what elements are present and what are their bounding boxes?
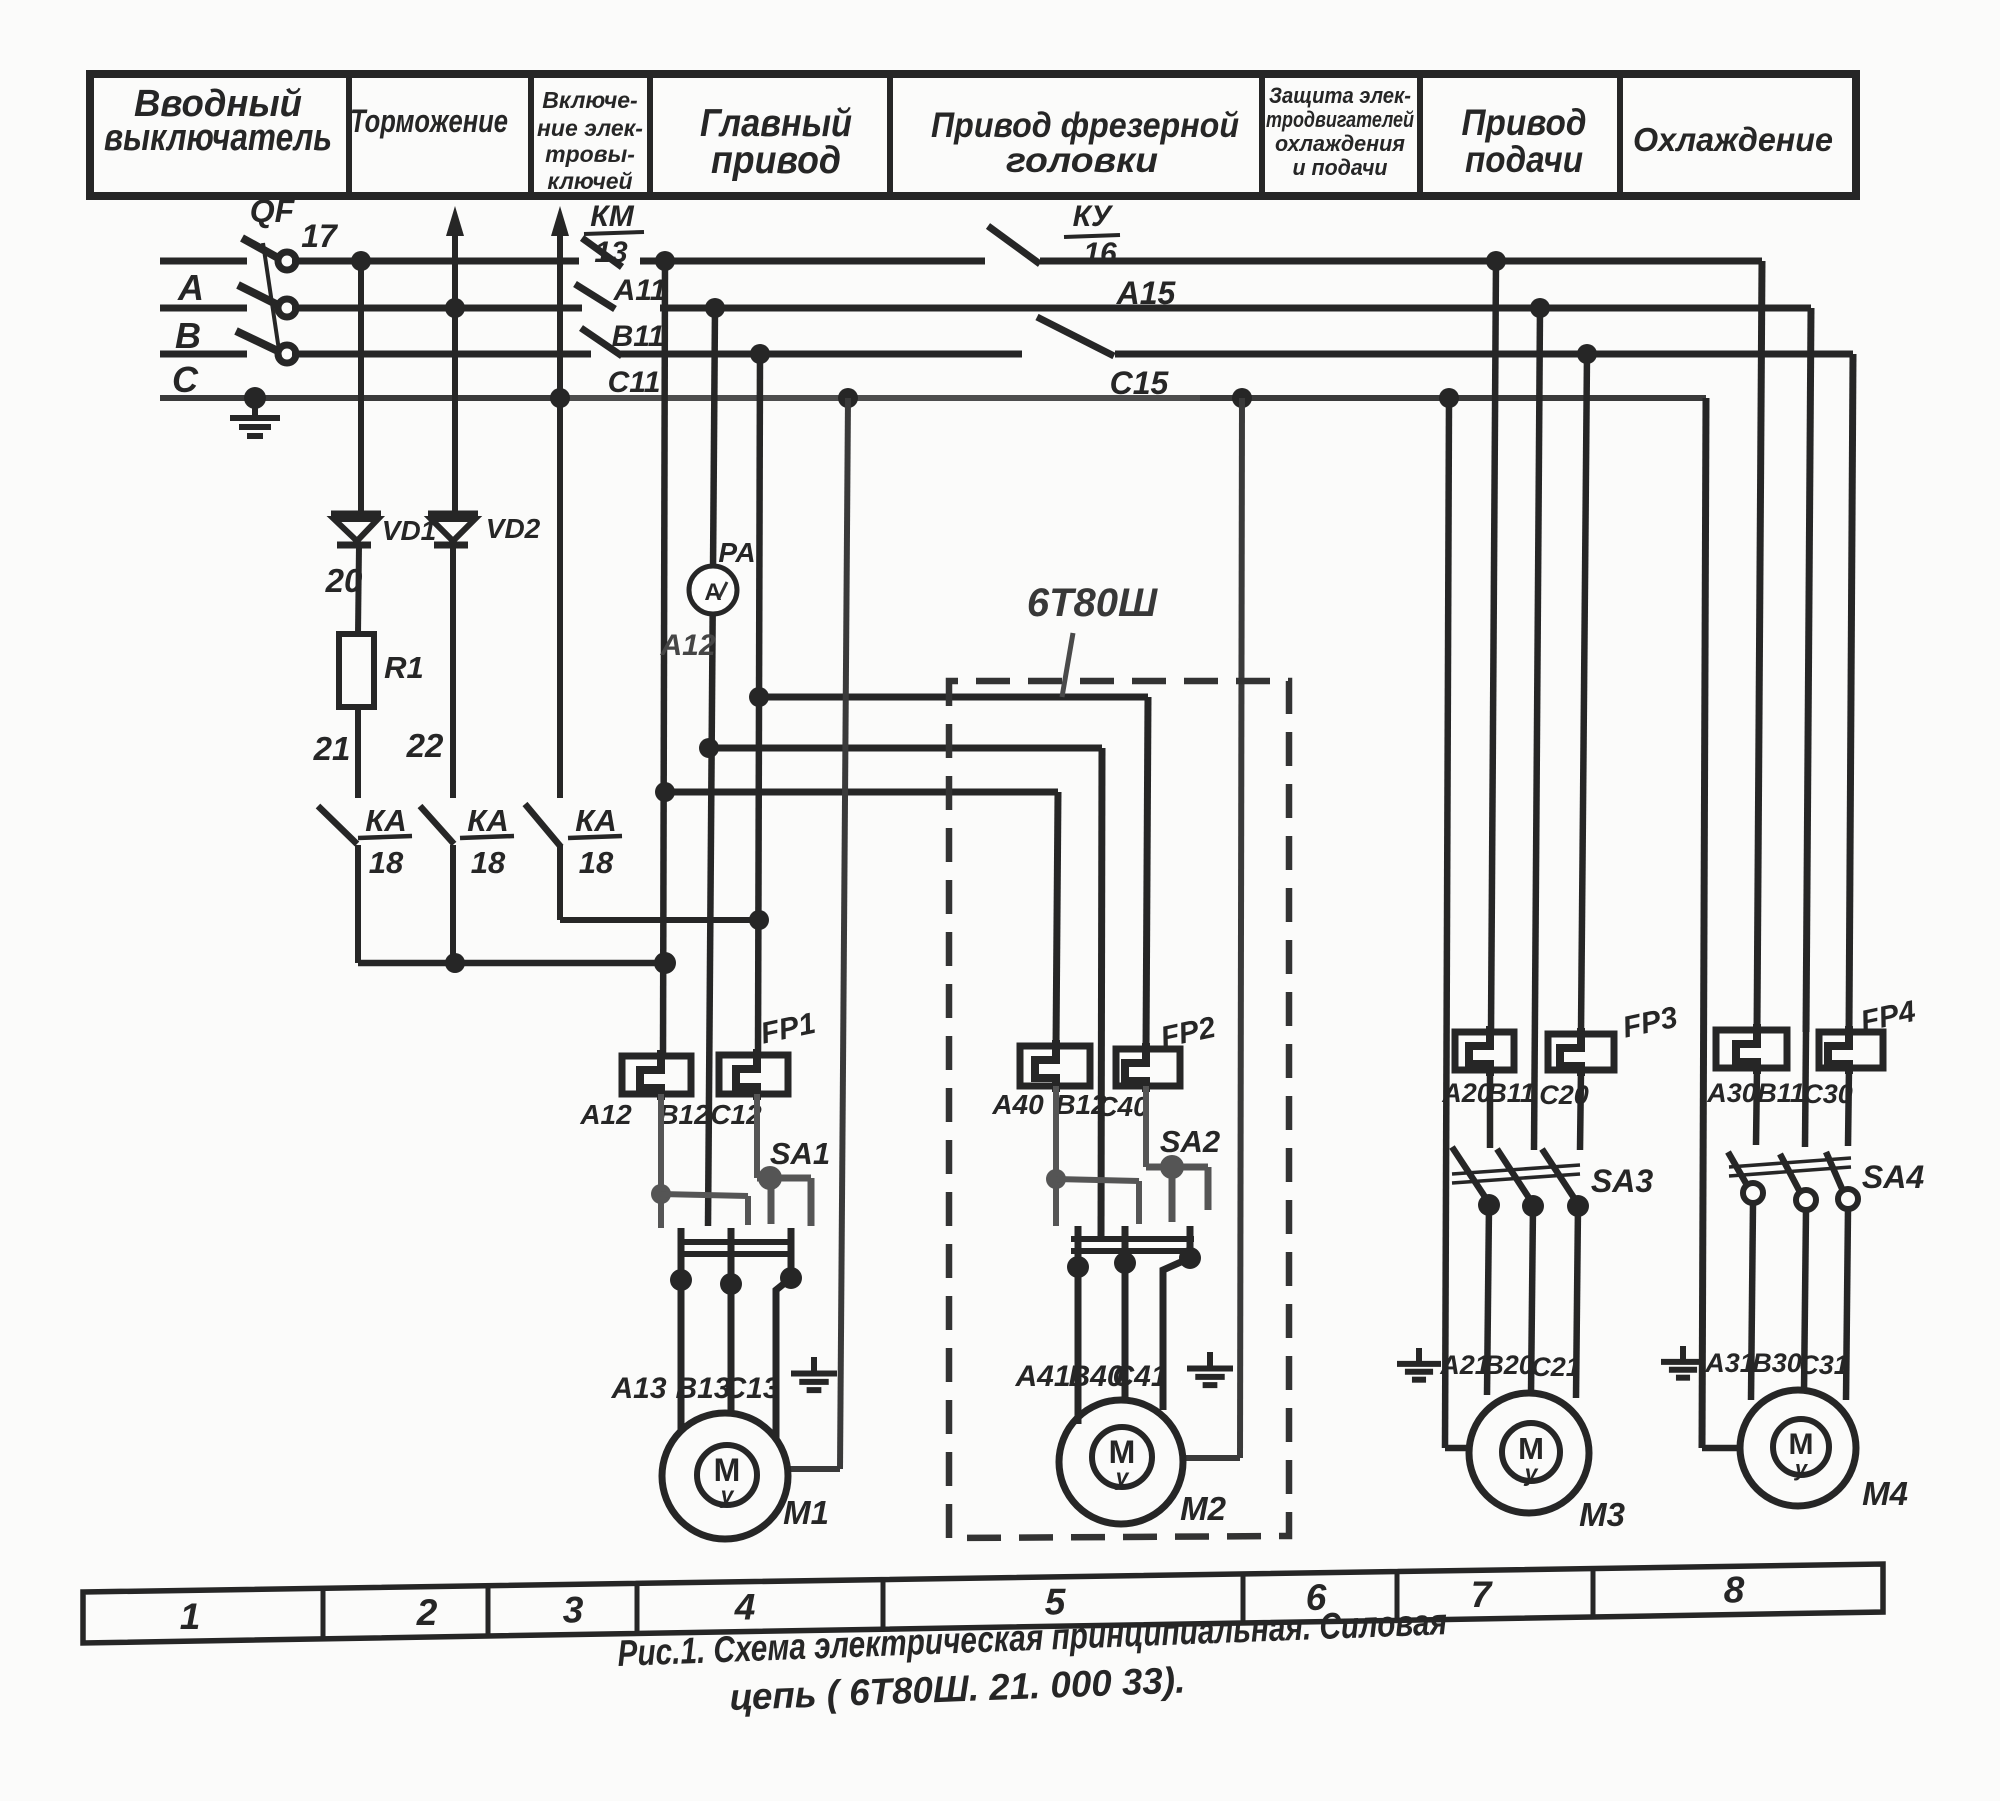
svg-text:С31: С31 bbox=[1799, 1350, 1849, 1380]
svg-text:А21: А21 bbox=[1439, 1350, 1490, 1380]
svg-text:VD2: VD2 bbox=[486, 513, 541, 544]
svg-text:у: у bbox=[720, 1482, 735, 1508]
svg-text:выключатель: выключатель bbox=[104, 117, 332, 159]
svg-text:С40: С40 bbox=[1097, 1091, 1149, 1122]
svg-text:А20: А20 bbox=[1441, 1078, 1492, 1108]
svg-text:тродвигателей: тродвигателей bbox=[1266, 107, 1414, 132]
svg-text:SA1: SA1 bbox=[770, 1136, 830, 1171]
svg-text:В11: В11 bbox=[1487, 1078, 1535, 1108]
svg-text:В20: В20 bbox=[1484, 1350, 1534, 1380]
svg-text:В13: В13 bbox=[675, 1372, 730, 1405]
svg-text:А11: А11 bbox=[613, 274, 667, 307]
svg-text:В30: В30 bbox=[1752, 1348, 1802, 1378]
svg-text:Привод фрезерной: Привод фрезерной bbox=[931, 106, 1239, 145]
svg-text:КУ: КУ bbox=[1073, 200, 1114, 233]
svg-text:А40: А40 bbox=[991, 1089, 1044, 1120]
svg-text:А: А bbox=[704, 579, 721, 606]
svg-text:SA4: SA4 bbox=[1862, 1159, 1924, 1195]
svg-text:А30: А30 bbox=[1706, 1078, 1757, 1108]
svg-text:2: 2 bbox=[416, 1592, 438, 1633]
svg-text:подачи: подачи bbox=[1465, 139, 1583, 180]
svg-text:А13: А13 bbox=[610, 1372, 666, 1405]
svg-text:В11: В11 bbox=[612, 320, 665, 353]
svg-text:КА: КА bbox=[467, 803, 508, 838]
svg-text:В: В bbox=[175, 315, 201, 356]
svg-text:и подачи: и подачи bbox=[1293, 155, 1389, 180]
svg-text:Защита элек-: Защита элек- bbox=[1269, 83, 1411, 108]
svg-text:А31: А31 bbox=[1704, 1348, 1755, 1378]
svg-text:у: у bbox=[1524, 1460, 1539, 1486]
svg-text:Включе-: Включе- bbox=[542, 87, 637, 113]
svg-text:SA3: SA3 bbox=[1591, 1163, 1653, 1199]
svg-text:20: 20 bbox=[325, 562, 363, 599]
svg-text:R1: R1 bbox=[384, 650, 424, 685]
svg-text:8: 8 bbox=[1724, 1570, 1745, 1611]
svg-text:КМ: КМ bbox=[590, 200, 634, 233]
svg-text:С13: С13 bbox=[724, 1372, 779, 1405]
svg-text:Привод: Привод bbox=[1462, 102, 1587, 143]
svg-text:у: у bbox=[1115, 1464, 1130, 1490]
svg-text:РА: РА bbox=[718, 537, 755, 568]
svg-text:18: 18 bbox=[579, 845, 614, 880]
svg-text:головки: головки bbox=[1006, 141, 1158, 180]
svg-text:тровы-: тровы- bbox=[545, 141, 635, 167]
svg-text:А15: А15 bbox=[1116, 275, 1177, 311]
svg-text:привод: привод bbox=[711, 139, 841, 182]
svg-text:у: у bbox=[1794, 1456, 1809, 1481]
svg-text:А: А bbox=[177, 267, 204, 308]
svg-text:С41: С41 bbox=[1112, 1360, 1167, 1393]
svg-text:18: 18 bbox=[369, 845, 404, 880]
svg-text:А12: А12 bbox=[659, 629, 715, 662]
svg-text:22: 22 bbox=[406, 727, 444, 764]
svg-text:ние элек-: ние элек- bbox=[537, 115, 643, 141]
svg-text:QF: QF bbox=[250, 193, 296, 229]
svg-text:М1: М1 bbox=[783, 1494, 829, 1531]
svg-text:17: 17 bbox=[301, 218, 339, 254]
svg-text:С: С bbox=[172, 359, 199, 400]
svg-text:А41: А41 bbox=[1014, 1360, 1070, 1393]
svg-text:КА: КА bbox=[575, 803, 616, 838]
svg-text:21: 21 bbox=[313, 730, 351, 767]
svg-text:В12: В12 bbox=[658, 1099, 710, 1130]
svg-text:SA2: SA2 bbox=[1160, 1124, 1220, 1159]
svg-text:М4: М4 bbox=[1862, 1475, 1908, 1512]
svg-text:ключей: ключей bbox=[547, 168, 632, 194]
svg-text:6Т80Ш: 6Т80Ш bbox=[1027, 581, 1158, 625]
svg-text:М3: М3 bbox=[1579, 1496, 1625, 1533]
svg-text:КА: КА bbox=[365, 803, 406, 838]
svg-text:Охлаждение: Охлаждение bbox=[1633, 121, 1833, 158]
svg-text:М2: М2 bbox=[1180, 1490, 1226, 1527]
svg-text:VD1: VD1 bbox=[382, 515, 436, 546]
svg-text:Торможение: Торможение bbox=[350, 103, 508, 139]
svg-text:В11: В11 bbox=[1757, 1078, 1805, 1108]
svg-text:3: 3 bbox=[563, 1590, 584, 1631]
svg-text:18: 18 bbox=[471, 845, 506, 880]
svg-text:С11: С11 bbox=[608, 366, 661, 399]
svg-text:16: 16 bbox=[1083, 237, 1117, 270]
svg-text:7: 7 bbox=[1471, 1574, 1494, 1615]
svg-text:С21: С21 bbox=[1531, 1352, 1581, 1382]
svg-text:А12: А12 bbox=[579, 1099, 632, 1130]
svg-text:охлаждения: охлаждения bbox=[1275, 131, 1405, 156]
svg-text:4: 4 bbox=[734, 1587, 756, 1628]
svg-text:1: 1 bbox=[180, 1596, 201, 1637]
svg-text:С15: С15 bbox=[1110, 365, 1170, 401]
